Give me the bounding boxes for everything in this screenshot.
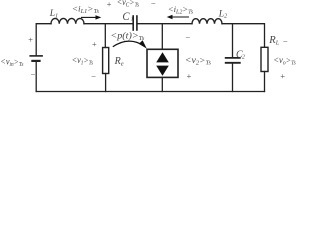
wire battery to bottom rail bbox=[35, 62, 37, 92]
svg-text:<vC>Ts: <vC>Ts bbox=[117, 0, 140, 9]
svg-text:<iL1>Ts: <iL1>Ts bbox=[72, 3, 100, 14]
svg-text:<p(t)>Ts: <p(t)>Ts bbox=[110, 31, 144, 43]
svg-text:<v2>Ts: <v2>Ts bbox=[185, 55, 212, 66]
wire top rail C1 to L2 bbox=[138, 23, 192, 25]
arrow iL2 bbox=[167, 15, 189, 19]
capacitor C2 bbox=[226, 58, 240, 63]
svg-text:−: − bbox=[91, 72, 97, 82]
svg-text:C: C bbox=[122, 11, 130, 23]
svg-text:L2: L2 bbox=[218, 9, 227, 19]
svg-text:+: + bbox=[91, 39, 97, 49]
wire top rail left segment bbox=[36, 24, 51, 56]
svg-text:+: + bbox=[186, 71, 192, 81]
svg-text:−: − bbox=[150, 0, 156, 9]
svg-text:<vin>Ts: <vin>Ts bbox=[0, 56, 24, 67]
resistor Re bbox=[103, 48, 109, 74]
node A junction wire to Re bbox=[104, 24, 106, 48]
svg-text:L1: L1 bbox=[49, 9, 58, 19]
battery source vin bottom plate bbox=[32, 60, 39, 62]
power source up/down arrows bbox=[156, 52, 169, 76]
svg-text:2: 2 bbox=[242, 54, 245, 60]
wire source box to bottom rail bbox=[161, 77, 163, 91]
inductor L2 bbox=[192, 19, 222, 24]
resistor RL bbox=[261, 47, 268, 71]
svg-text:+: + bbox=[28, 35, 34, 45]
svg-text:<vo>Ts: <vo>Ts bbox=[273, 55, 296, 66]
svg-text:<v1>Ts: <v1>Ts bbox=[72, 55, 94, 66]
inductor L1 bbox=[51, 18, 84, 23]
svg-text:−: − bbox=[30, 69, 36, 79]
svg-text:1: 1 bbox=[131, 17, 134, 23]
wire bottom rail bbox=[36, 91, 264, 93]
node B junction wire to source box bbox=[161, 24, 163, 50]
wire Re to bottom rail bbox=[105, 74, 107, 92]
wire C2 to bottom rail bbox=[232, 64, 234, 92]
svg-text:−: − bbox=[282, 36, 288, 46]
wire top rail L1 to C1 bbox=[84, 23, 132, 25]
wire RL to bottom rail bbox=[264, 72, 266, 92]
svg-text:RL: RL bbox=[268, 35, 279, 46]
arrow iL1 bbox=[81, 15, 101, 19]
capacitor C1 bbox=[133, 16, 137, 30]
svg-text:+: + bbox=[106, 0, 112, 9]
curved arrow p(t) bbox=[113, 40, 147, 48]
dependent power source box bbox=[147, 49, 178, 77]
svg-text:<iL2>Ts: <iL2>Ts bbox=[168, 4, 194, 15]
svg-text:−: − bbox=[185, 32, 191, 42]
svg-text:Re: Re bbox=[114, 56, 124, 67]
node C junction wire to C2 bbox=[232, 24, 234, 57]
svg-text:+: + bbox=[280, 71, 286, 81]
wire top rail L2 to top-right corner bbox=[222, 24, 265, 48]
battery source vin top plate bbox=[30, 55, 42, 57]
